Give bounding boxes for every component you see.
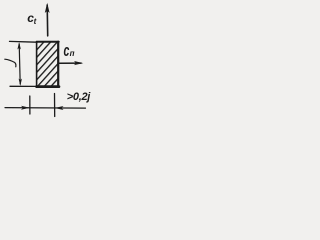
- svg-text:t: t: [34, 17, 37, 26]
- svg-text:>0,2j: >0,2j: [67, 91, 92, 103]
- svg-text:п: п: [70, 49, 75, 58]
- svg-text:c: c: [64, 40, 70, 59]
